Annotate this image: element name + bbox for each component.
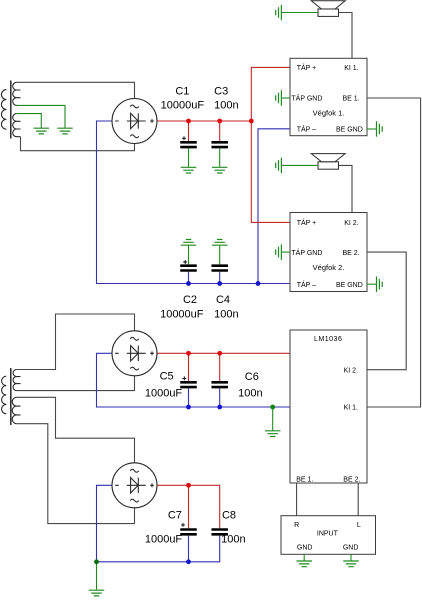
node: blue junction C4/rail [217,281,222,286]
svg-text:C4: C4 [216,294,230,306]
wire: LM1036 BE2 to input L [357,483,359,516]
ground left of amp1 [276,90,282,106]
ground bottom left [89,590,105,596]
wire: red C3 stub [219,121,221,141]
svg-text:C7: C7 [168,510,182,522]
node: blue junction C7/rail [186,559,191,564]
svg-text:R: R [294,522,299,529]
wire: blue C4 stub [219,272,221,284]
node: red junction C6/rail [217,351,222,356]
svg-text:KI 2.: KI 2. [344,220,358,227]
wire: blue C2 stub [188,272,190,284]
svg-text:KI 1.: KI 1. [344,405,358,412]
wire: red bridge B2 plus rail to LM1036 [157,352,290,354]
svg-text:GND: GND [297,545,313,552]
svg-text:1000uF: 1000uF [145,533,183,545]
ground left of speaker LS2 [276,158,282,174]
amplifier block U1 Vegfok 1 [290,58,367,135]
svg-text:KI 1.: KI 1. [344,65,358,72]
svg-text:BE GND: BE GND [336,127,363,134]
wire: green ground branch on LM rail [272,407,274,431]
svg-text:C6: C6 [245,371,259,383]
svg-text:100n: 100n [214,100,238,112]
node: green junction ground/blue rail [94,559,99,564]
svg-text:TÁP +: TÁP + [297,218,317,227]
svg-text:L: L [357,522,361,529]
svg-text:TÁP –: TÁP – [297,280,316,289]
polarity plus C5 [182,376,186,380]
svg-text:TÁP GND: TÁP GND [291,248,322,257]
polarity plus C7 [181,523,185,527]
capacitor C7 [180,530,197,535]
wire: green amp1 TAP GND to ground [281,97,290,99]
svg-text:BE 2.: BE 2. [343,477,360,484]
ground near T1 (left) [34,128,50,134]
wire: green amp1 BE GND to ground [367,128,377,130]
node: blue junction C5/rail [186,405,191,410]
wire: red C6 stub [219,353,221,381]
wire: amp2 BE2 to LM1036 KI2 [367,252,406,370]
wire: red C1 stub [188,121,190,141]
wire: T2 upper secondary top to bridge B2 AC top [17,314,135,370]
wire: T1 secondary top to bridge B1 AC top [17,82,135,98]
node: red junction C1/rail [186,119,191,124]
capacitor C3 [211,142,228,147]
wire: green C3 to ground [219,148,221,167]
wire: T2 lower secondary top to bridge B3 AC top [17,397,135,463]
svg-text:1000uF: 1000uF [145,388,183,400]
bridge rectifier B3 [112,463,157,508]
wire: green input GND right [350,554,352,560]
wire: red bridge B1 plus rail [157,120,251,122]
svg-text:Végfok 1.: Végfok 1. [313,108,345,117]
wire: speaker LS1 to amp1 KI [339,13,353,59]
wire: green T1 lower center tap to ground [17,114,42,128]
capacitor C8 [211,530,228,535]
svg-text:BE 1.: BE 1. [342,96,359,103]
wire: blue branch to amp1 TAP- [258,129,290,284]
node: blue junction rail/amp branch [256,281,261,286]
wire: blue C7 stub [188,536,190,562]
capacitor C5 [180,382,197,387]
wire: T1 secondary bottom to bridge B1 AC bottom [21,137,135,151]
capacitor C4 [211,266,228,271]
wire: green T1 upper center tap to ground [17,105,65,128]
capacitor C6 [211,382,228,387]
svg-text:INPUT: INPUT [317,531,339,538]
ground near T1 (right) [57,128,73,134]
wire: green speaker LS1 to ground [281,12,318,14]
wire: blue bridge B2 minus rail to LM1036 [97,353,291,407]
svg-text:LM1036: LM1036 [314,336,342,343]
wire: green ground branch bottom left [96,562,98,590]
svg-text:TÁP –: TÁP – [297,125,316,134]
wire: blue C5 stub [188,388,190,407]
svg-text:C3: C3 [214,85,228,97]
wire: red C7 stub [188,485,190,528]
speaker LS1 [311,1,345,17]
capacitor C2 [180,266,197,271]
wire: green input GND left [303,554,305,560]
transformer T2 core [10,368,12,425]
wire: speaker LS2 to amp2 KI [339,165,353,212]
chip block LM1036 [290,330,367,484]
svg-text:TÁP GND: TÁP GND [291,94,322,103]
wire: green ground to C2 [188,245,190,264]
ground left of speaker LS1 [276,5,282,21]
node: red junction rail corner [249,119,254,124]
speaker LS2 [311,154,345,170]
wire: blue C6 stub [219,388,221,407]
ground below LM rail [265,431,281,437]
svg-text:10000uF: 10000uF [161,100,205,112]
transformer T1 core [10,81,12,139]
ground below input left [296,561,312,567]
ground below input right [343,561,359,567]
wire: green amp2 BE GND to ground [367,283,377,285]
svg-text:Végfok 2.: Végfok 2. [313,263,345,272]
transformer T1 secondary lower winding [13,114,21,137]
wire: red bridge B3 plus rail [157,485,220,528]
svg-text:C5: C5 [160,370,174,382]
ground right of amp2 [377,276,383,292]
wire: T2 lower secondary bottom to bridge B3 AC bottom [17,424,135,524]
input block INPUT [281,516,376,555]
wire: LM1036 BE1 to input R [296,483,298,516]
polarity plus C1 [182,136,186,140]
transformer T1 primary winding [1,90,6,130]
svg-text:BE 1.: BE 1. [296,477,313,484]
node: red junction C7/rail [186,483,191,488]
transformer T2 primary winding [2,376,7,414]
inverted ground above C4 [212,240,228,246]
svg-text:GND: GND [343,545,359,552]
amplifier block U2 Vegfok 2 [290,213,367,292]
ground left of amp2 [276,244,282,260]
bridge rectifier B1 [112,99,157,144]
svg-text:C8: C8 [222,510,236,522]
transformer T2 secondary upper winding [13,370,20,391]
wire: green C1 to ground [188,148,190,167]
transformer T1 secondary upper winding [13,82,21,105]
svg-text:C1: C1 [175,85,189,97]
polarity plus C2 [183,260,187,264]
svg-text:10000uF: 10000uF [160,309,204,321]
capacitor C1 [180,142,197,147]
svg-text:100n: 100n [221,533,245,545]
node: red junction C3/rail [217,119,222,124]
node: blue junction C6/rail [217,405,222,410]
wire: blue bridge B3 minus rail [97,485,220,562]
wire: green amp2 TAP GND to ground [281,251,290,253]
wire: green ground to C4 [219,245,221,264]
ground right of amp1 [377,121,383,137]
wire: T2 upper secondary bottom to bridge B2 AC bottom [17,376,135,391]
ground below C1 [181,167,197,173]
wire: green speaker LS2 to ground [281,164,318,166]
inverted ground above C2 [181,240,197,246]
node: green junction ground/rail [270,405,275,410]
node: blue junction C2/rail [186,281,191,286]
wire: red C5 stub [188,353,190,381]
node: red junction C5/rail [186,351,191,356]
transformer T2 secondary lower winding [12,397,20,423]
svg-text:KI 2.: KI 2. [344,367,358,374]
svg-text:TÁP +: TÁP + [297,63,317,72]
svg-text:100n: 100n [214,309,238,321]
wire: blue bridge B1 minus to negative rail [97,121,291,284]
svg-text:BE 2.: BE 2. [342,250,359,257]
wire: amp1 BE1 to LM1036 KI1 [367,98,421,407]
svg-text:BE GND: BE GND [336,282,363,289]
ground below C3 [212,167,228,173]
bridge rectifier B2 [112,331,157,376]
svg-text:100n: 100n [238,388,262,400]
svg-text:C2: C2 [183,294,197,306]
wire: red positive rail vertical to amp1 and amp2 [251,67,290,222]
